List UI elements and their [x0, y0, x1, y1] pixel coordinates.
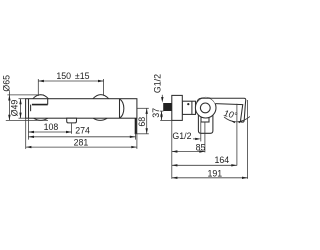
dim 10° [223, 104, 250, 166]
dim 108 [28, 122, 71, 134]
svg-text:164: 164 [215, 155, 230, 165]
faucet body (front) [26, 99, 137, 119]
lever (fill) [197, 97, 246, 122]
svg-text:281: 281 [74, 137, 89, 147]
connection pipe (side) [182, 101, 195, 114]
dim 164 [172, 155, 237, 166]
shower outlet (front) [67, 118, 77, 123]
screw dot [187, 103, 189, 105]
dim G1/2 top [153, 74, 164, 103]
dim 68 [135, 108, 149, 134]
svg-text:68: 68 [137, 117, 147, 127]
dim 191 [172, 100, 248, 179]
svg-text:274: 274 [75, 126, 90, 136]
dim Ø65 [2, 75, 48, 121]
dim G1/2 bottom [172, 122, 200, 141]
svg-text:150: 150 [56, 71, 71, 81]
pipe divider line [191, 101, 193, 114]
escutcheon right dome top arc [93, 95, 109, 99]
temperature grip rect [29, 99, 48, 105]
dim 274 [28, 126, 135, 140]
escutcheon left dome bottom arc [34, 118, 48, 120]
svg-text:Ø49: Ø49 [9, 100, 19, 117]
bottom outlet (side) [198, 114, 213, 133]
svg-text:Ø65: Ø65 [2, 75, 12, 92]
lever tail (front, edge-on) [135, 118, 137, 134]
right joint bulge arc [120, 99, 124, 118]
svg-text:108: 108 [44, 122, 59, 132]
right joint line [119, 99, 121, 119]
hub outer circle [195, 97, 216, 118]
dim 150 ±15 [38, 71, 103, 96]
svg-text:±15: ±15 [75, 71, 90, 81]
dim 37 [151, 108, 172, 120]
dim 85 [172, 122, 206, 153]
svg-text:G1/2: G1/2 [172, 131, 191, 141]
knob inner line [30, 105, 32, 112]
thread nipple (black) [163, 103, 171, 111]
temperature grip bottom edge [32, 104, 48, 106]
outlet inner connector [201, 117, 209, 122]
escutcheon left dome top arc [33, 95, 49, 99]
lever (outline) [197, 98, 246, 122]
svg-text:191: 191 [208, 169, 223, 179]
left end cap line [28, 99, 30, 119]
dim Ø49 [9, 99, 25, 119]
wall escutcheon (side) [172, 95, 183, 120]
dim 281 [26, 118, 137, 149]
escutcheon right dome bottom arc [93, 118, 107, 120]
svg-text:G1/2: G1/2 [153, 74, 163, 93]
hub inner circle [200, 103, 210, 113]
svg-text:37: 37 [151, 108, 161, 118]
